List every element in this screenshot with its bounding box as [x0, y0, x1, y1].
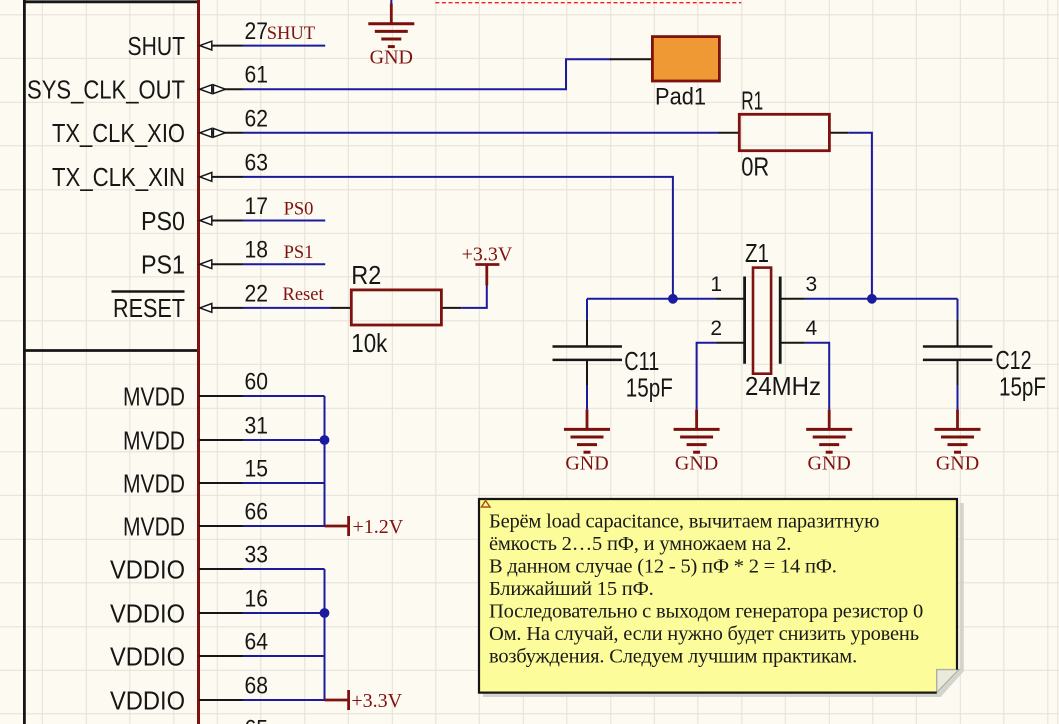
svg-text:Pad1: Pad1: [655, 84, 706, 111]
svg-text:16: 16: [245, 586, 269, 613]
red dashed boundary: [435, 2, 741, 4]
IC body top border: [23, 0, 199, 3]
svg-text:VDDIO: VDDIO: [110, 643, 185, 671]
wire crystal pin2 down: [697, 343, 717, 410]
capacitor C12: [923, 299, 1032, 386]
wire net TX_CLK_XIN: [243, 177, 673, 299]
svg-text:GND: GND: [675, 453, 718, 475]
svg-text:15: 15: [245, 456, 269, 483]
svg-text:GND: GND: [370, 47, 413, 69]
svg-text:Reset: Reset: [283, 285, 325, 305]
pin TX_CLK_XIO 62: [52, 105, 268, 148]
svg-text:31: 31: [245, 413, 269, 440]
note shadow: [483, 503, 964, 697]
ground GND (C12): [956, 409, 959, 429]
svg-text:R2: R2: [351, 260, 381, 290]
wire net Reset to R2: [243, 307, 331, 309]
ground GND (C11): [586, 409, 589, 429]
svg-text:64: 64: [245, 629, 269, 656]
pin MVDD 66: [123, 499, 268, 542]
pin SYS_CLK_OUT 61: [27, 62, 268, 105]
svg-text:SYS_CLK_OUT: SYS_CLK_OUT: [27, 77, 185, 105]
pin VDDIO 64: [110, 629, 268, 672]
wire net TX_CLK_XIO to R1: [243, 132, 719, 134]
svg-text:4: 4: [806, 317, 818, 340]
svg-text:MVDD: MVDD: [123, 470, 185, 498]
svg-text:В данном случае (12 - 5) пФ *: В данном случае (12 - 5) пФ * 2 = 14 пФ.: [489, 556, 837, 578]
wire VDDIO bus: [243, 569, 325, 700]
Pad1 lead: [610, 58, 652, 60]
IC body right border (dark red): [197, 0, 200, 724]
svg-text:VDDIO: VDDIO: [110, 687, 185, 715]
svg-text:68: 68: [245, 673, 269, 700]
svg-text:2: 2: [710, 317, 722, 340]
wire net SHUT: [243, 45, 325, 47]
pin MVDD 31: [123, 413, 268, 456]
crystal Z1: [710, 238, 817, 374]
pin PS1 18: [141, 237, 268, 280]
svg-text:3: 3: [806, 273, 818, 296]
ground GND (crystal pin4): [828, 409, 831, 429]
svg-text:17: 17: [245, 193, 269, 220]
pin TX_CLK_XIN 63: [52, 149, 268, 192]
wire C12 to GND: [957, 386, 959, 410]
svg-text:18: 18: [245, 237, 269, 264]
wire PS1 stub: [243, 263, 325, 265]
svg-text:PS1: PS1: [284, 243, 314, 263]
svg-text:MVDD: MVDD: [123, 427, 185, 455]
wire R1 to crystal pin3 node: [848, 133, 872, 299]
svg-text:+3.3V: +3.3V: [351, 690, 402, 712]
svg-text:62: 62: [245, 105, 269, 132]
wire MVDD bus: [243, 396, 325, 526]
svg-text:Последовательно с выходом гене: Последовательно с выходом генератора рез…: [489, 601, 923, 623]
ground GND (crystal pin2): [695, 409, 698, 429]
svg-text:ёмкость 2…5 пФ, и умножаем на: ёмкость 2…5 пФ, и умножаем на 2.: [489, 533, 791, 555]
resistor R2: [351, 290, 441, 325]
svg-text:PS1: PS1: [141, 252, 185, 280]
pin PS0 17: [141, 193, 268, 236]
svg-text:65: 65: [245, 716, 269, 724]
svg-text:15pF: 15pF: [626, 373, 673, 403]
svg-text:1: 1: [710, 273, 722, 296]
svg-text:PS0: PS0: [141, 208, 185, 236]
pin VDDIO 16: [110, 586, 268, 629]
svg-text:Ом. На случай, если нужно буде: Ом. На случай, если нужно будет снизить …: [489, 623, 919, 645]
junction VDDIO: [320, 608, 330, 618]
svg-text:Ближайший 15 пФ.: Ближайший 15 пФ.: [489, 578, 654, 600]
svg-text:MVDD: MVDD: [123, 513, 185, 541]
svg-text:GND: GND: [565, 453, 608, 475]
wire R2 to +3.3V: [461, 285, 487, 308]
svg-text:TX_CLK_XIO: TX_CLK_XIO: [52, 120, 185, 148]
pin VDDIO 33: [110, 542, 268, 585]
svg-text:24MHz: 24MHz: [745, 371, 821, 401]
note text: [489, 511, 923, 668]
wire C11 to GND: [586, 386, 588, 410]
wire PS0 stub: [243, 220, 325, 222]
svg-text:33: 33: [245, 542, 269, 569]
pin RESET 22 (active low): [112, 280, 269, 323]
IC U? body left border: [23, 0, 26, 724]
svg-text:GND: GND: [936, 453, 979, 475]
wire crystal pin4 down: [805, 343, 829, 410]
svg-text:+1.2V: +1.2V: [353, 516, 404, 538]
IC body section divider: [24, 349, 198, 352]
pin MVDD 15: [123, 456, 268, 499]
svg-text:C11: C11: [624, 346, 659, 376]
svg-text:TX_CLK_XIN: TX_CLK_XIN: [52, 164, 185, 192]
junction node XIN: [668, 294, 678, 304]
svg-text:SHUT: SHUT: [267, 24, 315, 44]
wire net SYS_CLK_OUT to Pad1: [243, 59, 611, 89]
resistor R1 leads: [719, 132, 740, 134]
svg-text:RESET: RESET: [113, 295, 185, 323]
resistor R2 leads: [331, 307, 352, 309]
svg-text:C12: C12: [996, 345, 1032, 375]
note body: [479, 499, 957, 693]
svg-text:Z1: Z1: [745, 238, 769, 268]
resistor R1: [739, 114, 829, 150]
svg-text:27: 27: [245, 18, 269, 45]
svg-text:Берём load capacitance, вычита: Берём load capacitance, вычитаем паразит…: [489, 511, 879, 533]
svg-text:15pF: 15pF: [999, 372, 1046, 402]
svg-text:MVDD: MVDD: [123, 383, 185, 411]
svg-text:63: 63: [245, 149, 269, 176]
svg-text:+3.3V: +3.3V: [462, 244, 513, 266]
svg-text:VDDIO: VDDIO: [110, 556, 185, 584]
svg-text:PS0: PS0: [284, 200, 314, 220]
svg-text:GND: GND: [808, 453, 851, 475]
power port +1.2V: [325, 525, 349, 528]
svg-text:SHUT: SHUT: [128, 33, 186, 61]
power port +3.3V (top): [485, 265, 488, 286]
svg-text:61: 61: [245, 62, 269, 89]
svg-text:VDDIO: VDDIO: [110, 600, 185, 628]
svg-text:0R: 0R: [741, 152, 769, 182]
junction node XIO: [867, 294, 877, 304]
pin MVDD 60: [123, 369, 268, 412]
svg-text:60: 60: [245, 369, 269, 396]
note corner icon: [482, 501, 491, 508]
note fold: [937, 670, 959, 693]
junction MVDD: [320, 435, 330, 445]
svg-text:10k: 10k: [351, 328, 388, 358]
capacitor C11: [553, 299, 660, 386]
pin VDDIO 68: [110, 673, 268, 716]
ground GND (top): [390, 0, 392, 5]
note border: [479, 499, 957, 693]
wire crystal pin3 to C12: [805, 298, 958, 300]
svg-text:возбуждения. Следуем лучшим пр: возбуждения. Следуем лучшим практикам.: [489, 646, 857, 668]
pin SHUT 27: [128, 18, 269, 61]
pad Pad1: [652, 37, 719, 81]
svg-text:66: 66: [245, 499, 269, 526]
svg-text:R1: R1: [741, 86, 763, 116]
svg-text:22: 22: [245, 280, 269, 307]
power port +3.3V (bottom): [325, 699, 349, 702]
wire crystal node left (to C11): [587, 298, 717, 300]
